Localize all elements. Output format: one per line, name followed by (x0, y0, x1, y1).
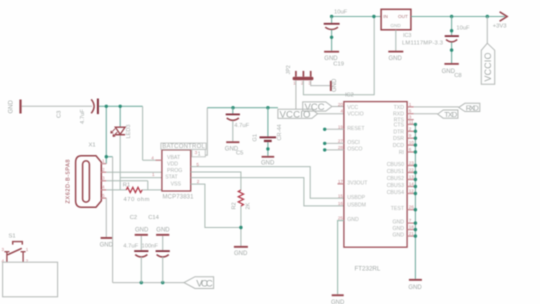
pin 3 (X1) (101, 180, 106, 182)
pin 26 (TEST) (407, 209, 415, 211)
ground (above C14, inverted) (156, 228, 170, 236)
pin 23 (CBUS0) (407, 165, 415, 167)
wire BATCONTROL to top rail (205, 108, 207, 156)
wire R1 to MCP (142, 189, 162, 191)
wire MCP VSS to R2 bottom (191, 184, 241, 227)
pin 5 (X1) (101, 197, 106, 199)
svg-text:VCCIO: VCCIO (280, 109, 311, 120)
svg-text:CBUS4: CBUS4 (387, 190, 404, 196)
pin 27 (OSCI) (325, 142, 344, 144)
svg-text:RXD: RXD (466, 103, 480, 112)
svg-text:22: 22 (409, 168, 415, 173)
pin 4 (X1) (101, 189, 106, 191)
pin 19 (RESET) (325, 128, 344, 130)
svg-text:OSCO: OSCO (347, 146, 362, 152)
svg-text:LM1117MP-3.3: LM1117MP-3.3 (402, 41, 443, 47)
ground (below C5) (225, 141, 244, 156)
svg-text:PROG: PROG (167, 168, 182, 174)
ground (below R2) (234, 246, 248, 257)
wire FT232 GND pin to ground (338, 221, 344, 295)
wire to bottom rail (112, 157, 114, 283)
svg-text:IC2: IC2 (345, 93, 354, 99)
flag VCC (bottom, points left) (184, 277, 214, 290)
node junction C19 lower pin (330, 36, 333, 39)
pin 17 (3V3OUT) (338, 183, 344, 185)
svg-text:C3: C3 (57, 111, 63, 118)
pin 9 (DSR) (407, 137, 415, 139)
svg-text:2: 2 (102, 167, 105, 172)
label BATCONTROL net (161, 143, 206, 157)
svg-text:20: 20 (338, 102, 344, 107)
svg-text:CBUS3: CBUS3 (387, 183, 404, 189)
svg-text:VCC: VCC (347, 105, 358, 111)
svg-text:14: 14 (409, 182, 415, 187)
IC U2 MCP73831 charge controller (162, 150, 194, 201)
svg-text:4: 4 (102, 185, 105, 190)
svg-text:GND: GND (156, 228, 170, 234)
ground GND (top left, sideways) (9, 100, 22, 114)
svg-text:R1: R1 (123, 182, 130, 188)
svg-text:17: 17 (338, 179, 344, 184)
LED LED3 (111, 125, 132, 191)
svg-text:DTR: DTR (393, 129, 404, 135)
svg-text:C2: C2 (130, 215, 137, 221)
svg-text:3V3OUT: 3V3OUT (347, 180, 368, 186)
svg-text:VDD: VDD (167, 162, 178, 168)
svg-text:1: 1 (102, 159, 105, 164)
svg-text:DSR: DSR (393, 136, 404, 142)
svg-text:2: 2 (409, 126, 412, 131)
svg-text:5: 5 (409, 109, 412, 114)
svg-text:10uF: 10uF (456, 25, 470, 31)
svg-text:21: 21 (409, 231, 415, 236)
svg-text:TEST: TEST (391, 206, 405, 212)
ground (right of JP2, sideways) (330, 78, 338, 92)
svg-text:CBUS0: CBUS0 (387, 162, 404, 168)
svg-text:G1: G1 (253, 134, 259, 141)
wire FT232 right-side ground bus (teal) (414, 124, 416, 279)
svg-text:6: 6 (409, 147, 412, 152)
wire MCP PROG to FT232 USBDP (191, 167, 344, 199)
node junction at regulator IN (372, 15, 375, 18)
resistor R1 470 ohm (123, 182, 150, 203)
svg-text:RI: RI (399, 150, 404, 156)
svg-text:LED3: LED3 (126, 125, 132, 139)
svg-text:10uF: 10uF (334, 10, 348, 16)
pin 2 (DTR) (407, 130, 415, 132)
svg-text:12: 12 (409, 189, 415, 194)
svg-text:GND: GND (390, 23, 401, 28)
svg-text:GND: GND (331, 300, 345, 304)
svg-text:USBDM: USBDM (347, 202, 366, 208)
resistor R2 2K (231, 190, 251, 209)
svg-text:GND: GND (408, 285, 422, 291)
svg-text:9: 9 (409, 133, 412, 138)
svg-text:23: 23 (409, 161, 415, 166)
wire JP2 pin3 to ground (311, 80, 330, 85)
svg-text:26: 26 (409, 205, 415, 210)
switch S1 (2, 234, 29, 264)
node junction at C2 (140, 281, 143, 284)
pin 13 (CBUS2) (407, 179, 415, 181)
svg-text:19: 19 (338, 124, 344, 129)
svg-text:1: 1 (409, 102, 412, 107)
svg-text:USBDP: USBDP (347, 195, 365, 201)
svg-text:GND: GND (392, 226, 404, 232)
svg-text:CBUS2: CBUS2 (387, 176, 404, 182)
pin 2 (X1) (101, 171, 106, 173)
wire X1 pin4 to R1 (106, 189, 126, 191)
svg-text:4.7uF: 4.7uF (80, 109, 86, 124)
svg-text:C8: C8 (454, 73, 461, 79)
pin 12 (CBUS4) (407, 193, 415, 195)
pin 28 (OSCO) (325, 149, 344, 151)
node junction at C19 (330, 15, 333, 18)
svg-text:CBUS1: CBUS1 (387, 169, 404, 175)
node junction at X1 pin 1 (105, 155, 108, 158)
wire regulator input rail (teal) (332, 16, 382, 18)
svg-text:3: 3 (102, 176, 105, 181)
flag TXD (438, 110, 458, 119)
ground (below X1) (100, 237, 114, 248)
svg-text:15: 15 (338, 193, 344, 198)
wire JP2 pin1 to VCCIO (295, 80, 297, 109)
svg-text:CR-44: CR-44 (277, 124, 283, 140)
wire X1 pin5 to ground (105, 198, 107, 237)
node junction at C5 (231, 106, 234, 109)
svg-text:GND: GND (9, 100, 15, 114)
node junction at C14 (161, 281, 164, 284)
svg-text:OUT: OUT (398, 14, 408, 19)
svg-text:GND: GND (392, 233, 404, 239)
svg-text:C19: C19 (333, 62, 344, 68)
node junction below G1 (266, 147, 269, 150)
capacitor C14 100nF (142, 215, 170, 282)
svg-text:5: 5 (102, 193, 105, 198)
node junction C8 bottom pin (450, 48, 453, 51)
svg-text:GND: GND (234, 251, 248, 257)
svg-text:DCD: DCD (393, 143, 404, 149)
svg-text:GND: GND (389, 56, 403, 62)
node junctions on ground bus (414, 123, 417, 238)
pin 4 (MCP VBAT) (156, 159, 162, 161)
svg-text:1: 1 (198, 151, 201, 157)
svg-text:C5: C5 (236, 150, 243, 156)
svg-text:10: 10 (409, 140, 415, 145)
svg-text:IN: IN (383, 14, 388, 19)
pin 7 (GND) (407, 222, 415, 224)
ground (below C19) (324, 51, 344, 68)
svg-text:IC3: IC3 (403, 33, 411, 39)
pin 14 (CBUS3) (407, 186, 415, 188)
capacitor C19 10uF (324, 10, 348, 51)
svg-text:1: 1 (152, 172, 155, 177)
wire VBUS net (teal top-left run) (99, 106, 162, 163)
connector X1 USB mini-B ZX62D-B-5PA8 (65, 142, 101, 207)
IC3 LM1117MP-3.3 regulator (381, 9, 443, 46)
pin 18 (GND) (407, 229, 415, 231)
pin 22 (CBUS1) (407, 172, 415, 174)
wire VCC mid rail (teal) (207, 107, 278, 109)
svg-text:TXD: TXD (394, 105, 405, 111)
svg-text:STAT: STAT (165, 174, 178, 180)
svg-text:GND: GND (332, 78, 338, 92)
svg-text:FT232RL: FT232RL (355, 266, 381, 273)
capacitor C8 10uF (445, 17, 470, 64)
svg-text:MCP73831: MCP73831 (163, 194, 195, 200)
wire JP2 pin2 to regulator input (303, 17, 374, 95)
IC2 FT232RL (344, 93, 407, 273)
svg-text:VBAT: VBAT (167, 155, 181, 161)
svg-text:GND: GND (347, 217, 359, 223)
svg-text:R2: R2 (231, 202, 237, 209)
wire MCP STAT row to FT232 USBDM (191, 178, 344, 206)
svg-text:25: 25 (338, 216, 344, 221)
svg-text:OSCI: OSCI (347, 140, 360, 146)
svg-text:X1: X1 (89, 142, 96, 148)
jumper JP2 (286, 65, 314, 85)
svg-text:27: 27 (338, 138, 344, 143)
wire MCP to R2 (191, 172, 241, 190)
pin 1 (X1) (101, 163, 106, 165)
tag VCCIO (vertical supply tag) (481, 17, 494, 85)
node junction R2/VSS (239, 226, 242, 229)
node junction C8 top pin (450, 29, 453, 32)
flag RXD (459, 103, 480, 112)
svg-text:100nF: 100nF (142, 244, 159, 250)
ground (below FT232) (331, 294, 345, 304)
node junction at C8 (450, 15, 453, 18)
pin 10 (DCD) (407, 144, 415, 146)
svg-text:VCC: VCC (196, 279, 213, 290)
svg-text:RESET: RESET (347, 126, 365, 132)
capacitor C3 4.7uF (polarized, horizontal) (57, 99, 98, 125)
svg-text:28: 28 (338, 145, 344, 150)
wire LED to MCP STAT (120, 177, 162, 179)
ground (below IC3) (388, 51, 403, 62)
node junction at VCCIO tag (486, 15, 489, 18)
flag VCCIO (to FT232 VCCIO pin) (278, 109, 344, 120)
box battery outline (bottom left) (3, 262, 58, 297)
wire X1 pin3 net (106, 181, 148, 190)
wire GND to C3 (22, 105, 92, 107)
svg-text:470 ohm: 470 ohm (124, 197, 150, 203)
svg-text:7: 7 (409, 218, 412, 223)
svg-text:2K: 2K (245, 202, 251, 209)
svg-text:S1: S1 (9, 234, 16, 240)
svg-text:18: 18 (409, 225, 415, 230)
svg-text:4.7uF: 4.7uF (123, 243, 138, 249)
wire regulator GND (395, 30, 397, 51)
pin 1 (TXD) (407, 106, 414, 108)
svg-text:13: 13 (409, 175, 415, 180)
svg-text:VSS: VSS (171, 181, 182, 187)
pin 3 (RTS) (407, 119, 414, 121)
arrow +3V3 (493, 12, 507, 30)
pin 11 (CTS) (407, 123, 415, 125)
svg-text:CTS: CTS (394, 122, 405, 128)
svg-text:GND: GND (261, 161, 275, 167)
svg-text:TXD: TXD (444, 110, 458, 119)
ground (right, below FT232) (408, 279, 422, 291)
svg-text:ZX62D-B-5PA8: ZX62D-B-5PA8 (65, 160, 71, 204)
wire bottom rail to VCC flag (113, 282, 184, 284)
node junction VBUS at LED (119, 105, 122, 108)
ground (below G1) (261, 156, 275, 167)
svg-text:+3V3: +3V3 (493, 23, 507, 29)
wire R2 bottom (240, 206, 242, 246)
svg-text:GND: GND (100, 242, 114, 248)
wire TXD to RXD flag (414, 106, 459, 108)
svg-text:VCCIO: VCCIO (347, 112, 363, 118)
pin 21 (GND) (407, 235, 415, 237)
capacitor C2 4.7uF (123, 215, 148, 282)
pin 5 (RXD) (407, 113, 414, 115)
ground (above C2, inverted) (135, 228, 149, 236)
svg-text:VCCIO: VCCIO (483, 52, 493, 81)
wire X1 pin2 net (to MCP row) (106, 171, 162, 173)
node junction VBUS at C3 (105, 105, 108, 108)
svg-text:GND: GND (392, 220, 404, 226)
svg-text:GND: GND (135, 228, 149, 234)
wire +3V3 output rail (teal) (411, 16, 505, 18)
battery G1 CR-44 (253, 108, 283, 156)
pin 6 (RI) (407, 151, 415, 153)
node junction at G1 (266, 106, 269, 109)
capacitor C5 4.7uF (226, 108, 250, 142)
svg-text:4: 4 (151, 156, 154, 161)
svg-text:4: 4 (340, 109, 343, 114)
svg-text:11: 11 (409, 119, 414, 124)
svg-text:16: 16 (338, 201, 344, 206)
flag VCC (to FT232 VCC pin) (303, 102, 344, 113)
svg-text:C14: C14 (148, 215, 159, 221)
svg-text:JP2: JP2 (286, 65, 292, 74)
wire RXD to TXD flag (414, 113, 438, 115)
svg-text:4.7uF: 4.7uF (234, 123, 249, 129)
ground (below C8) (442, 63, 462, 79)
svg-text:2: 2 (197, 179, 200, 184)
